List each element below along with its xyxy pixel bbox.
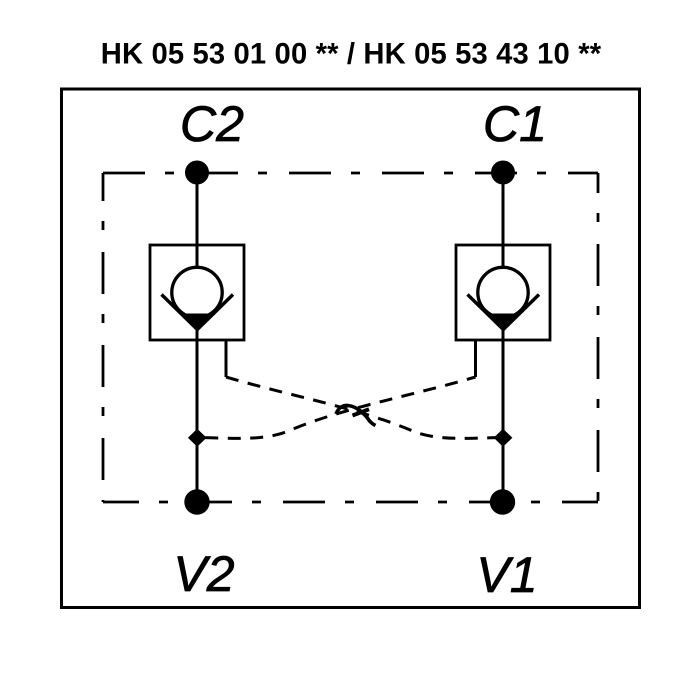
check valve CV1 envelope: [456, 245, 550, 340]
wire: check valve CV2 to V2 node: [196, 326, 199, 501]
port node V1: [490, 489, 515, 514]
svg-text:C2: C2: [180, 96, 244, 152]
valve body boundary (dash-dot), top edge: [103, 172, 598, 175]
junction node on V2 line: [188, 429, 207, 447]
junction node on V1 line: [494, 429, 513, 447]
check valve CV2 envelope: [150, 245, 244, 340]
wire: C2 node to check valve CV2: [196, 173, 199, 268]
svg-text:HK 05 53 01 00 ** / HK 05 53 4: HK 05 53 01 00 ** / HK 05 53 43 10 **: [101, 39, 602, 71]
svg-text:C1: C1: [483, 96, 547, 152]
port node V2: [184, 489, 209, 514]
pilot line CV2 to V1 node (dashed): [226, 377, 503, 438]
enclosure outer frame: [62, 89, 640, 608]
check valve CV2 ball: [172, 267, 222, 317]
pilot line CV1 to V2 node (dashed): [198, 377, 476, 438]
wire: C1 node to check valve CV1: [502, 173, 505, 268]
valve body boundary, bottom edge: [103, 501, 598, 504]
check valve CV2 seat: [162, 295, 234, 330]
valve body boundary, left edge: [102, 173, 105, 502]
check valve CV1 seat fill: [489, 314, 519, 330]
check valve CV1 ball: [478, 267, 528, 317]
check valve CV2 seat fill: [183, 314, 213, 330]
port node C2: [185, 161, 209, 185]
port node C1: [491, 161, 515, 185]
pilot tap wire from CV2: [225, 340, 228, 377]
wire: check valve CV1 to V1 node: [502, 326, 505, 501]
pilot line crossing jump: [336, 405, 376, 425]
valve body boundary, right edge: [597, 173, 600, 502]
pilot tap wire from CV1: [474, 340, 477, 377]
crossing knot stroke: [353, 409, 370, 415]
svg-text:V2: V2: [173, 546, 234, 602]
check valve CV1 seat: [468, 295, 540, 330]
svg-text:V1: V1: [476, 547, 537, 603]
